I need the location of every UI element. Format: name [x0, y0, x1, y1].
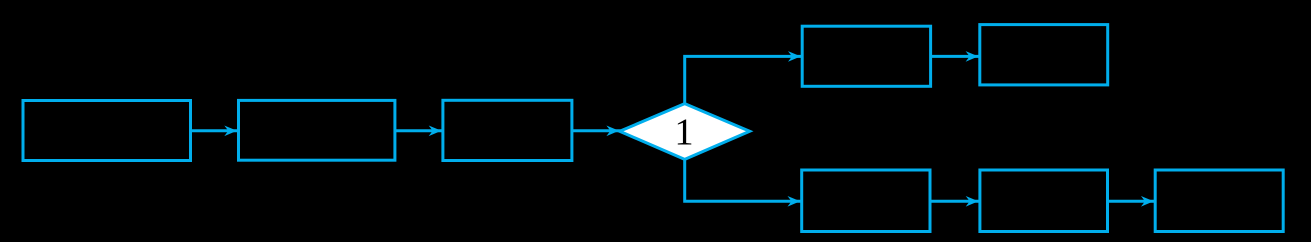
box B8 — [1155, 170, 1283, 232]
box B4 — [802, 26, 930, 86]
arrow B4 to B5 — [931, 55, 980, 58]
svg-text:1: 1 — [674, 111, 693, 153]
box B2 — [239, 100, 395, 160]
arrow B3 to D1 — [572, 129, 621, 132]
box B6 — [802, 170, 930, 232]
elbow arrow D1 to B6 — [685, 159, 802, 201]
box B1 — [23, 101, 191, 161]
arrow B6 to B7 — [930, 200, 980, 203]
decision diamond D1 — [620, 104, 750, 160]
arrow B7 to B8 — [1108, 200, 1156, 203]
arrow B2 to B3 — [395, 129, 443, 132]
arrow B1 to B2 — [191, 129, 239, 132]
box B7 — [980, 170, 1108, 232]
elbow arrow D1 to B4 — [685, 56, 803, 104]
box B5 — [980, 25, 1108, 85]
box B3 — [443, 100, 572, 160]
